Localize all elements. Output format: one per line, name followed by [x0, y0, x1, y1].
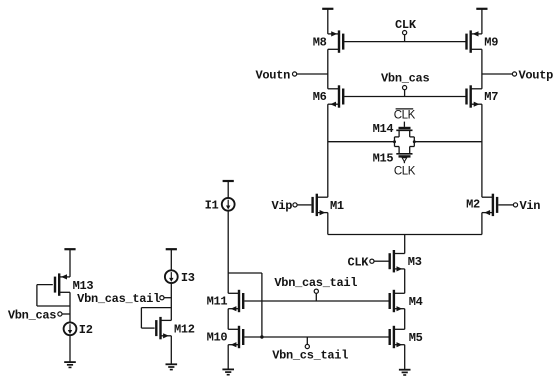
- label M15: [373, 152, 394, 166]
- wire M2 source down: [481, 213, 483, 235]
- power VDD rail (above I1): [223, 180, 234, 182]
- svg-text:CLK: CLK: [395, 18, 417, 32]
- label M4: [409, 295, 423, 309]
- svg-text:Vbn_cas_tail: Vbn_cas_tail: [77, 292, 160, 306]
- svg-text:M4: M4: [409, 295, 423, 309]
- junction dot (TG right): [413, 140, 416, 143]
- transistor M5: [390, 326, 405, 348]
- svg-text:M8: M8: [313, 36, 327, 50]
- transistor M1: [313, 194, 328, 216]
- label I2: [79, 323, 93, 337]
- node Vip terminal: [293, 203, 312, 207]
- label Voutn: [255, 68, 290, 82]
- label M9: [484, 36, 498, 50]
- ground (below I2): [64, 362, 76, 367]
- wire common source node: [328, 234, 482, 236]
- label CLK (below M15): [394, 165, 416, 177]
- svg-text:Vbn_cas_tail: Vbn_cas_tail: [274, 276, 357, 290]
- current source I3: [165, 270, 178, 283]
- svg-text:I3: I3: [181, 271, 195, 285]
- wire VDD to M13 source: [69, 249, 71, 277]
- node Vbn_cs_tail terminal: [305, 337, 309, 349]
- power VDD rail (above M13): [64, 248, 75, 250]
- label M1: [330, 199, 344, 213]
- label M12: [174, 322, 195, 336]
- wire M1 source down: [327, 213, 329, 235]
- wire M13 drain down to I2: [69, 292, 71, 322]
- svg-text:M5: M5: [409, 331, 423, 345]
- label Vbn_cas: [381, 72, 429, 86]
- wire transmission gate to right rail: [414, 141, 482, 143]
- transistor M11: [228, 290, 243, 312]
- transistor M12: [156, 317, 171, 339]
- svg-text:Vbn_cs_tail: Vbn_cs_tail: [272, 348, 348, 362]
- label CLK (top): [395, 18, 417, 32]
- power VDD rail (right, above M9): [476, 8, 487, 10]
- label M6: [313, 90, 327, 104]
- wire VDD to I3: [170, 249, 172, 270]
- wire M3 source to M4 drain: [404, 269, 406, 293]
- power VDD rail (left, above M8): [322, 8, 333, 10]
- svg-text:M9: M9: [484, 36, 498, 50]
- label M3: [408, 255, 422, 269]
- wire M8 gate to M9 gate: [344, 41, 465, 43]
- svg-text:CLK: CLK: [394, 165, 416, 177]
- transistor M14 / transistor M15 (transmission gate): [395, 122, 415, 164]
- power VDD rail (above I3): [166, 248, 177, 250]
- junction dot (TG left): [393, 140, 396, 143]
- svg-text:Voutn: Voutn: [255, 68, 290, 82]
- wire M6 gate to M7 gate: [344, 96, 465, 98]
- wire VDD to M8 source: [327, 9, 329, 34]
- label Vin: [520, 199, 541, 213]
- wire M13 gate loop: [37, 285, 70, 306]
- label Vbn_cs_tail: [272, 348, 348, 362]
- wire M11 source to M10 drain: [227, 309, 229, 330]
- wire M4 source to M5 drain: [404, 309, 406, 330]
- label Vip: [271, 199, 292, 213]
- label M10: [207, 331, 228, 345]
- wire tail to M3 drain: [404, 235, 406, 254]
- wire Vbn_cas_tail (M11 gate to M4 gate): [244, 300, 388, 302]
- label Vbn_cas_tail (mid): [274, 276, 357, 290]
- svg-text:I2: I2: [79, 323, 93, 337]
- transistor M10: [228, 326, 243, 348]
- svg-text:M6: M6: [313, 90, 327, 104]
- label I3: [181, 271, 195, 285]
- svg-text:Vbn_cas: Vbn_cas: [381, 72, 429, 86]
- label M11: [207, 294, 228, 308]
- transistor M8: [328, 30, 343, 52]
- svg-text:M10: M10: [207, 331, 228, 345]
- node Vin terminal: [498, 203, 517, 207]
- wire diode branch horizontal: [228, 272, 262, 274]
- wire Vbn_cs_tail (M10 gate to M5 gate): [244, 336, 388, 338]
- current source I2: [64, 322, 77, 335]
- label Voutp: [519, 68, 554, 82]
- node Vbn_cas_tail terminal (mid): [314, 289, 318, 301]
- svg-text:Vbn_cas: Vbn_cas: [8, 308, 56, 322]
- svg-text:CLK: CLK: [394, 109, 416, 121]
- node Vbn_cas terminal (left): [58, 312, 70, 316]
- ground (below M12): [166, 364, 178, 369]
- wire I2 to ground: [69, 335, 71, 362]
- junction dot (M10 gate node): [260, 335, 263, 338]
- wire M5 source down: [404, 345, 406, 370]
- node Vbn_cas_tail terminal (left): [160, 296, 172, 300]
- label M13: [73, 279, 94, 293]
- label I1: [205, 199, 219, 213]
- node CLK terminal (M3 gate): [370, 259, 389, 263]
- label CLK-bar (above M14): [394, 109, 416, 121]
- transistor M6: [328, 85, 343, 107]
- wire M12 gate loop: [141, 308, 171, 329]
- wire diode branch vertical: [261, 273, 263, 337]
- ground (below M10): [222, 369, 234, 374]
- svg-text:M1: M1: [330, 199, 344, 213]
- node CLK terminal (top): [403, 30, 407, 41]
- wire I3 to M12 drain: [170, 283, 172, 320]
- svg-text:M2: M2: [466, 198, 480, 212]
- current source I1: [222, 198, 235, 211]
- wire left rail to transmission gate: [328, 141, 395, 143]
- svg-text:M7: M7: [484, 90, 498, 104]
- wire M12 source down: [170, 336, 172, 365]
- svg-text:M11: M11: [207, 294, 228, 308]
- transistor M3: [390, 250, 405, 272]
- svg-text:M12: M12: [174, 322, 195, 336]
- label Vbn_cas_tail (left): [77, 292, 160, 306]
- node Voutp terminal: [482, 72, 517, 76]
- transistor M4: [390, 290, 405, 312]
- label Vbn_cas (left): [8, 308, 56, 322]
- svg-text:Vin: Vin: [520, 199, 541, 213]
- wire M9 drain to M7 drain (right rail): [481, 49, 483, 89]
- transistor M9: [467, 30, 482, 52]
- label M8: [313, 36, 327, 50]
- wire VDD to M9 source: [481, 9, 483, 34]
- svg-text:M15: M15: [373, 152, 394, 166]
- wire VDD to I1: [227, 181, 229, 198]
- label M7: [484, 90, 498, 104]
- svg-text:Voutp: Voutp: [519, 68, 554, 82]
- label M14: [373, 122, 394, 136]
- node Voutn terminal: [293, 72, 328, 76]
- label CLK (M3): [347, 256, 369, 270]
- svg-text:M14: M14: [373, 122, 394, 136]
- svg-text:M13: M13: [73, 279, 94, 293]
- wire M10 source down: [227, 345, 229, 370]
- svg-text:Vip: Vip: [271, 199, 292, 213]
- wire M7 source to M2 drain (right rail): [481, 104, 483, 197]
- label M2: [466, 198, 480, 212]
- wire M6 source to M1 drain (left rail): [327, 104, 329, 197]
- label M5: [409, 331, 423, 345]
- svg-text:M3: M3: [408, 255, 422, 269]
- ground (below M5): [399, 370, 411, 375]
- transistor M13: [55, 273, 70, 295]
- wire I1 to M11 drain: [227, 211, 229, 294]
- svg-text:I1: I1: [205, 199, 219, 213]
- wire M8 drain to M6 drain (left rail): [327, 49, 329, 89]
- svg-text:CLK: CLK: [347, 256, 369, 270]
- transistor M7: [467, 85, 482, 107]
- node Vbn_cas terminal: [403, 86, 407, 97]
- transistor M2: [482, 194, 497, 216]
